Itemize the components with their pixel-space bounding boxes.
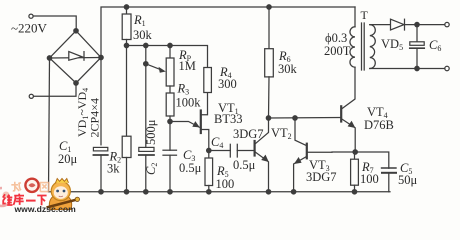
svg-text:300: 300 bbox=[218, 77, 237, 91]
red text 维库一下 bbox=[3, 194, 47, 206]
capacitor C1 bbox=[93, 147, 107, 191]
wire VT4 base line bbox=[269, 117, 341, 120]
node bridge right bbox=[99, 55, 103, 59]
svg-text:20μ: 20μ bbox=[58, 152, 78, 166]
svg-text:100: 100 bbox=[360, 172, 379, 186]
node out top bbox=[415, 22, 419, 26]
svg-text:3k: 3k bbox=[107, 162, 120, 176]
resistor R2 bbox=[122, 46, 131, 192]
capacitor C6 bbox=[410, 25, 424, 69]
svg-text:0.5μ: 0.5μ bbox=[233, 158, 256, 172]
capacitor C2 bbox=[139, 46, 154, 192]
svg-text:ϕ0.3: ϕ0.3 bbox=[325, 31, 347, 45]
mascot bbox=[47, 179, 80, 210]
transistor VT3 3DG7 (mirrored) bbox=[294, 118, 332, 192]
svg-text:500μ: 500μ bbox=[144, 119, 158, 145]
svg-text:VT2: VT2 bbox=[271, 126, 292, 141]
svg-text:30k: 30k bbox=[133, 28, 153, 42]
node VT2 collector bbox=[266, 116, 270, 120]
node bridge bottom bbox=[74, 81, 78, 85]
svg-text:T: T bbox=[361, 8, 369, 22]
svg-text:C6: C6 bbox=[429, 38, 441, 53]
rail junction dots bbox=[99, 190, 103, 194]
resistor R1 bbox=[122, 7, 131, 46]
potentiometer RP bbox=[166, 46, 174, 94]
svg-text:0.5μ: 0.5μ bbox=[179, 161, 202, 175]
svg-text:R3: R3 bbox=[177, 82, 190, 97]
transistor VT4 D76B bbox=[341, 67, 355, 152]
terminal AC bottom bbox=[29, 94, 33, 98]
wire R7 box top bbox=[332, 152, 389, 168]
svg-text:2CP4×4: 2CP4×4 bbox=[88, 98, 102, 137]
wire bbox=[34, 83, 76, 96]
faded badge bbox=[25, 179, 38, 192]
resistor R3 bbox=[166, 93, 174, 122]
svg-text:VD5: VD5 bbox=[381, 37, 403, 52]
wire positive down to C1 bbox=[100, 58, 102, 145]
resistor R5 bbox=[205, 151, 213, 192]
node B bbox=[207, 148, 211, 152]
capacitor C3 bbox=[163, 122, 177, 192]
wire positive up bbox=[101, 7, 355, 58]
wiper arrow bbox=[144, 62, 166, 73]
node R3 bottom bbox=[168, 119, 172, 123]
svg-text:30k: 30k bbox=[278, 62, 298, 76]
svg-text:1M: 1M bbox=[179, 59, 196, 73]
terminal out top bbox=[445, 22, 449, 26]
resistor R4 bbox=[204, 68, 212, 93]
capacitor C4 bbox=[209, 144, 254, 157]
faded slogan text bbox=[11, 182, 49, 192]
svg-text:100: 100 bbox=[216, 177, 235, 191]
transformer T bbox=[350, 7, 375, 70]
primary bbox=[354, 7, 356, 27]
svg-text:BT33: BT33 bbox=[214, 112, 242, 126]
resistor R7 bbox=[351, 152, 359, 192]
node R6 top bbox=[267, 5, 271, 9]
transistor VT2 3DG7 bbox=[255, 118, 269, 192]
node A1 bbox=[124, 43, 128, 47]
terminal out bottom bbox=[445, 66, 449, 70]
node A3 bbox=[168, 43, 172, 47]
svg-text:100k: 100k bbox=[176, 96, 202, 110]
wire out bottom bbox=[370, 68, 445, 70]
diode VD5 bbox=[370, 19, 445, 30]
capacitor C5 bbox=[382, 168, 397, 192]
node bridge left bbox=[47, 56, 51, 60]
svg-text:www.dzsc.com: www.dzsc.com bbox=[14, 204, 77, 214]
wire bottom rail bbox=[49, 191, 391, 193]
wire node A bbox=[127, 46, 208, 68]
svg-text:D76B: D76B bbox=[364, 118, 394, 132]
unijunction transistor VT1 BT33 bbox=[170, 93, 209, 151]
svg-text:~220V: ~220V bbox=[11, 21, 48, 36]
svg-text:3DG7: 3DG7 bbox=[306, 170, 337, 184]
wire negative rail down bbox=[49, 58, 50, 192]
node out bottom bbox=[415, 66, 419, 70]
svg-text:200T: 200T bbox=[324, 44, 351, 58]
node bridge top bbox=[74, 29, 78, 33]
node R1 top bbox=[124, 5, 128, 9]
node A2 bbox=[144, 43, 148, 47]
svg-text:R1: R1 bbox=[133, 13, 146, 28]
wire bbox=[34, 16, 77, 31]
resistor R6 bbox=[265, 7, 274, 118]
secondary bbox=[370, 25, 376, 69]
terminal AC top bbox=[29, 14, 33, 18]
core bbox=[361, 23, 363, 70]
faded logo swirl left bbox=[0, 188, 11, 206]
svg-text:50μ: 50μ bbox=[398, 173, 418, 187]
node VT3 collector bbox=[293, 116, 297, 120]
svg-text:3DG7: 3DG7 bbox=[233, 127, 264, 141]
watermark bbox=[0, 179, 80, 214]
svg-text:C4: C4 bbox=[211, 135, 223, 150]
bridge rectifier VD1~VD4 bbox=[50, 31, 102, 83]
node VT4 emitter bbox=[353, 150, 357, 154]
